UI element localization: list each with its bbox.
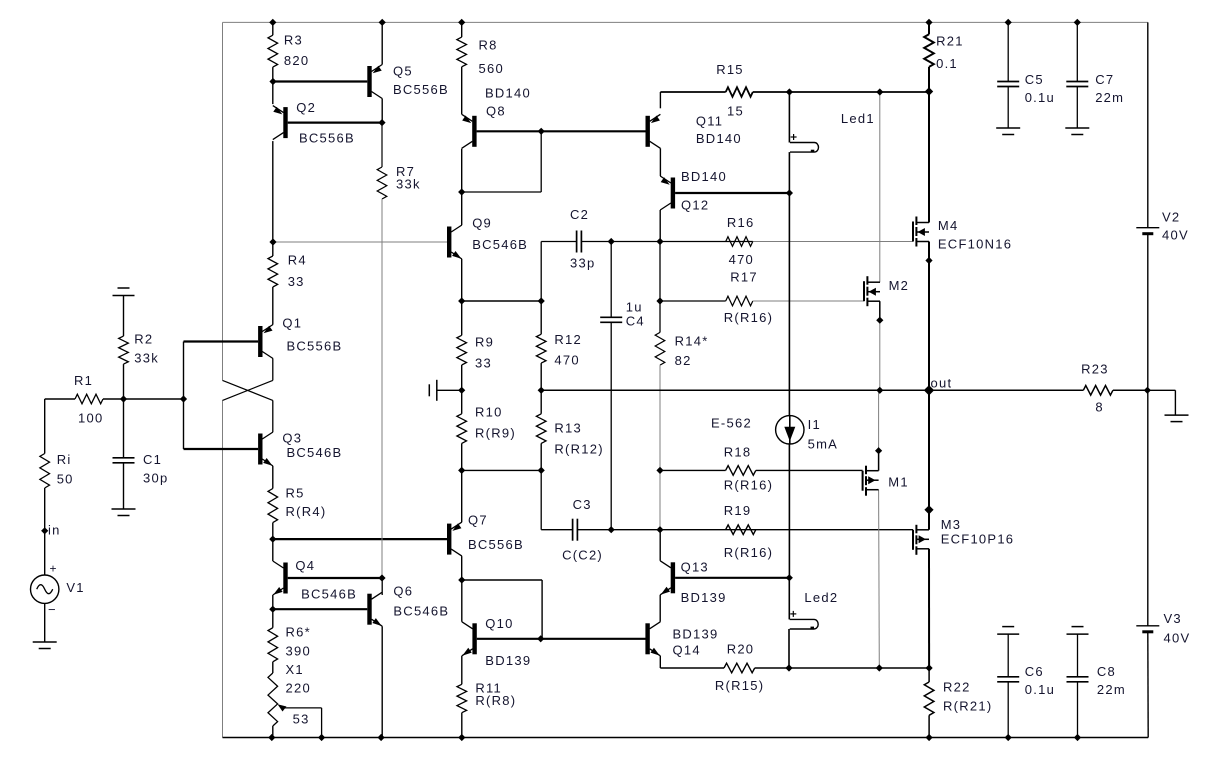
svg-text:R22: R22: [943, 680, 971, 695]
svg-text:33: 33: [475, 356, 492, 371]
svg-text:BC556B: BC556B: [299, 131, 355, 146]
svg-text:R21: R21: [936, 34, 964, 49]
svg-text:R(R9): R(R9): [475, 426, 516, 441]
svg-text:C4: C4: [626, 314, 645, 329]
svg-text:50: 50: [57, 472, 74, 487]
svg-text:X1: X1: [286, 662, 304, 677]
svg-text:560: 560: [479, 61, 504, 76]
svg-text:390: 390: [286, 644, 311, 659]
svg-text:C7: C7: [1095, 72, 1114, 87]
svg-text:C6: C6: [1025, 664, 1044, 679]
svg-text:BC556B: BC556B: [287, 339, 343, 354]
svg-text:0.1u: 0.1u: [1025, 682, 1055, 697]
svg-text:R(R8): R(R8): [475, 693, 516, 708]
svg-text:R6*: R6*: [286, 625, 311, 640]
svg-text:0.1: 0.1: [936, 56, 958, 71]
svg-text:33: 33: [288, 274, 305, 289]
svg-text:Q7: Q7: [468, 513, 488, 528]
svg-text:out: out: [931, 376, 953, 391]
svg-text:BD139: BD139: [485, 653, 531, 668]
svg-text:BC556B: BC556B: [468, 537, 524, 552]
svg-text:820: 820: [284, 53, 309, 68]
svg-text:BD140: BD140: [681, 169, 727, 184]
svg-text:Q10: Q10: [485, 616, 513, 631]
svg-text:Q1: Q1: [282, 316, 302, 331]
svg-text:V2: V2: [1162, 210, 1180, 225]
svg-text:C2: C2: [570, 207, 589, 222]
svg-text:Q2: Q2: [296, 100, 316, 115]
svg-text:Q12: Q12: [681, 198, 709, 213]
svg-text:R23: R23: [1081, 362, 1109, 377]
svg-text:Q9: Q9: [472, 216, 492, 231]
svg-text:40V: 40V: [1164, 631, 1191, 646]
svg-text:C8: C8: [1097, 664, 1116, 679]
svg-text:220: 220: [286, 681, 311, 696]
svg-text:R(R16): R(R16): [724, 545, 773, 560]
svg-text:R13: R13: [554, 421, 582, 436]
svg-text:53: 53: [293, 712, 310, 727]
svg-text:BC546B: BC546B: [287, 445, 343, 460]
svg-text:M2: M2: [889, 278, 910, 293]
svg-text:R15: R15: [716, 62, 744, 77]
svg-text:BD139: BD139: [673, 627, 719, 642]
svg-text:22m: 22m: [1097, 682, 1126, 697]
svg-text:BC546B: BC546B: [472, 237, 528, 252]
svg-text:I1: I1: [808, 417, 821, 432]
svg-text:C(C2): C(C2): [562, 548, 603, 563]
svg-text:−: −: [48, 602, 56, 617]
svg-text:0.1u: 0.1u: [1025, 90, 1055, 105]
svg-text:Q3: Q3: [282, 431, 302, 446]
svg-text:BD140: BD140: [485, 86, 531, 101]
svg-text:R10: R10: [475, 405, 503, 420]
svg-text:V3: V3: [1164, 611, 1182, 626]
svg-text:BC546B: BC546B: [301, 587, 357, 602]
svg-text:C3: C3: [573, 497, 592, 512]
svg-text:1u: 1u: [626, 300, 643, 315]
svg-text:470: 470: [554, 353, 579, 368]
svg-text:R(R16): R(R16): [724, 478, 773, 493]
svg-text:5mA: 5mA: [808, 437, 838, 452]
svg-text:R(R16): R(R16): [724, 310, 773, 325]
svg-text:15: 15: [727, 104, 744, 119]
svg-text:R3: R3: [284, 33, 303, 48]
svg-text:Led2: Led2: [804, 590, 838, 605]
svg-text:R(R21): R(R21): [943, 699, 992, 714]
svg-text:BC556B: BC556B: [393, 82, 449, 97]
svg-text:R2: R2: [134, 332, 153, 347]
svg-text:Q11: Q11: [696, 114, 723, 129]
svg-text:470: 470: [729, 252, 754, 267]
svg-text:BC546B: BC546B: [393, 604, 449, 619]
svg-text:C5: C5: [1025, 72, 1044, 87]
svg-text:ECF10N16: ECF10N16: [938, 237, 1012, 252]
svg-text:in: in: [48, 523, 61, 538]
svg-text:R17: R17: [730, 270, 758, 285]
svg-text:30p: 30p: [143, 471, 168, 486]
svg-text:M3: M3: [941, 517, 962, 532]
svg-text:R18: R18: [724, 445, 752, 460]
svg-text:R12: R12: [554, 332, 582, 347]
svg-text:R8: R8: [479, 38, 498, 53]
svg-text:Q14: Q14: [673, 643, 701, 658]
svg-text:V1: V1: [66, 580, 84, 595]
svg-text:Q5: Q5: [393, 64, 413, 79]
svg-text:R20: R20: [727, 642, 755, 657]
svg-text:BD139: BD139: [681, 590, 727, 605]
svg-text:Q13: Q13: [681, 560, 709, 575]
svg-text:40V: 40V: [1162, 228, 1189, 243]
svg-text:100: 100: [78, 411, 103, 426]
svg-text:R19: R19: [724, 503, 752, 518]
svg-text:M4: M4: [938, 218, 959, 233]
svg-text:E-562: E-562: [711, 416, 752, 431]
svg-text:33k: 33k: [396, 177, 421, 192]
svg-text:82: 82: [675, 353, 692, 368]
svg-text:R(R15): R(R15): [715, 678, 764, 693]
svg-text:+: +: [50, 562, 57, 576]
svg-text:ECF10P16: ECF10P16: [941, 532, 1015, 547]
svg-text:R14*: R14*: [675, 334, 709, 349]
svg-text:R5: R5: [286, 486, 305, 501]
svg-text:8: 8: [1095, 400, 1103, 415]
svg-text:Led1: Led1: [841, 111, 875, 126]
svg-text:Q8: Q8: [486, 104, 506, 119]
svg-text:33k: 33k: [134, 351, 159, 366]
svg-text:R9: R9: [475, 335, 494, 350]
svg-text:BD140: BD140: [696, 131, 742, 146]
svg-text:R(R4): R(R4): [286, 504, 327, 519]
svg-text:R1: R1: [74, 373, 93, 388]
svg-text:M1: M1: [888, 475, 909, 490]
svg-text:R(R12): R(R12): [554, 442, 603, 457]
svg-text:C1: C1: [143, 452, 162, 467]
svg-text:Ri: Ri: [57, 452, 72, 467]
svg-text:Q6: Q6: [393, 584, 413, 599]
svg-text:22m: 22m: [1095, 90, 1124, 105]
svg-text:R4: R4: [288, 253, 307, 268]
svg-text:33p: 33p: [570, 256, 595, 271]
svg-text:Q4: Q4: [295, 558, 315, 573]
svg-text:R16: R16: [727, 215, 755, 230]
